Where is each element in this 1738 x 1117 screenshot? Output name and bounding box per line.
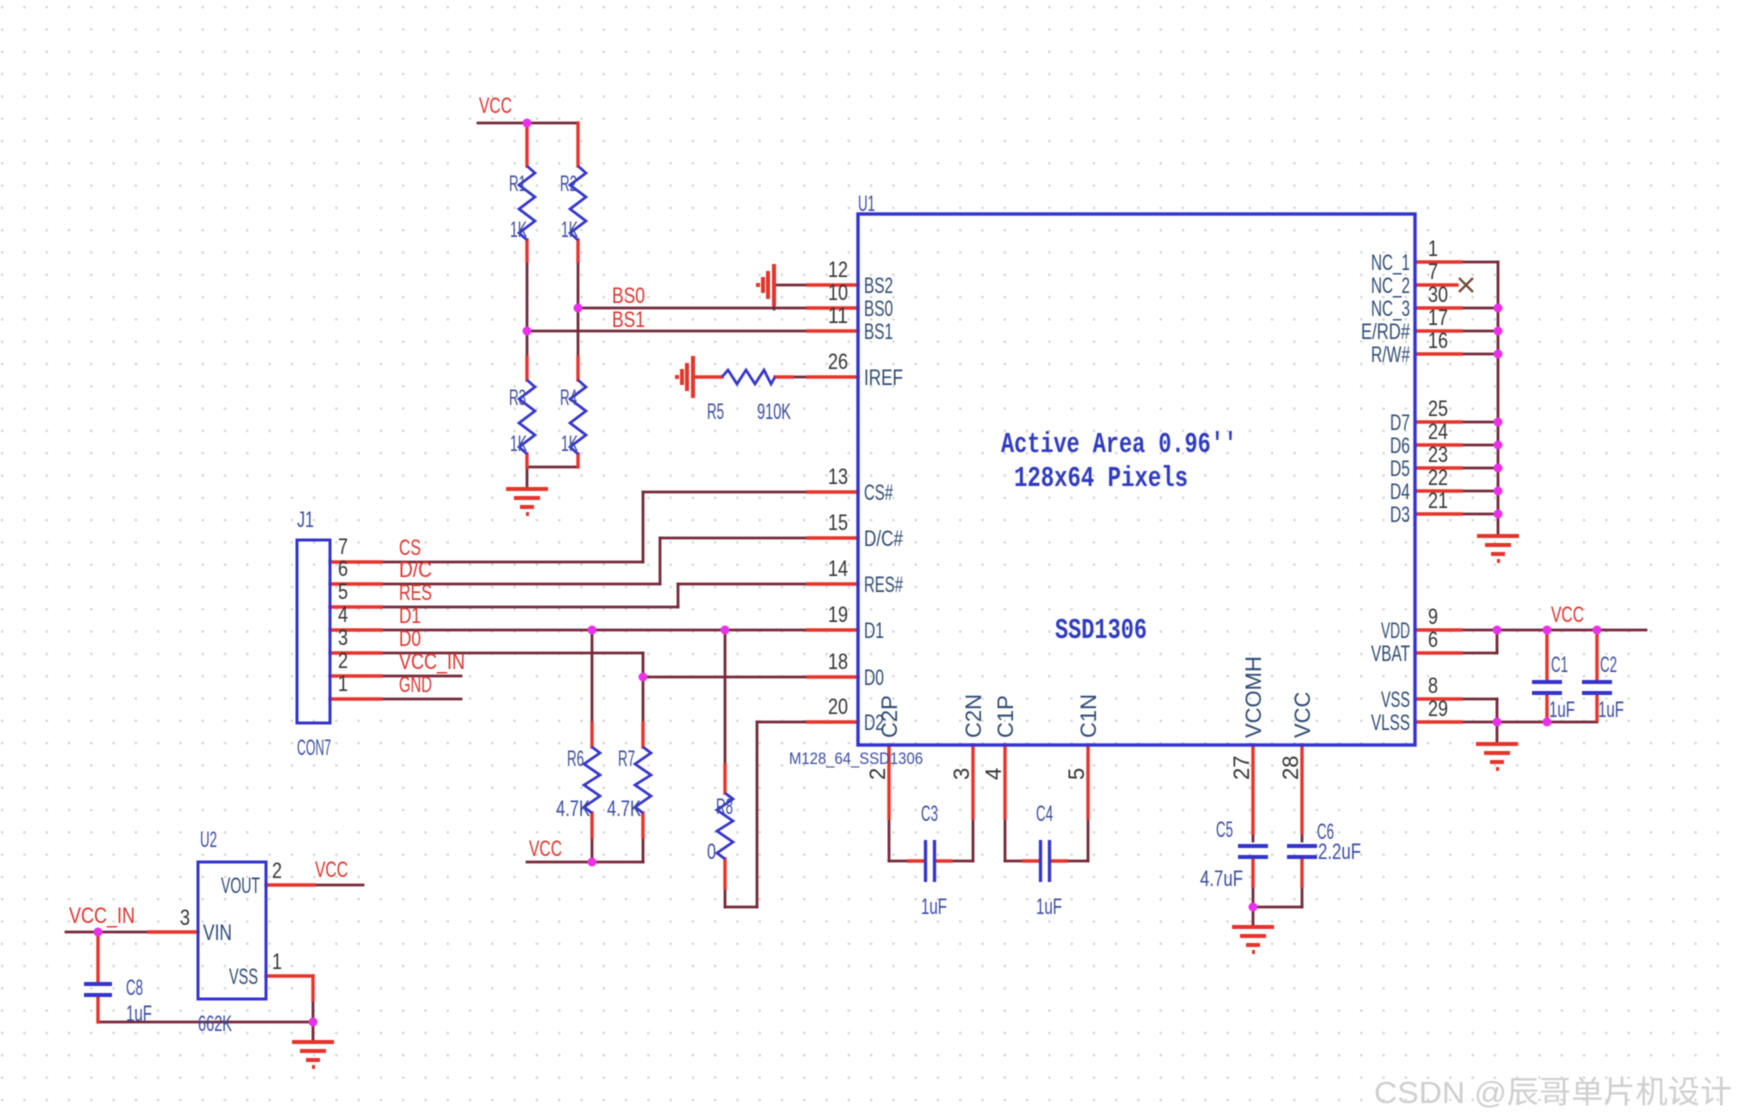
svg-text:1K: 1K (510, 217, 527, 242)
svg-text:C2N: C2N (961, 694, 986, 738)
svg-text:23: 23 (1428, 442, 1448, 467)
svg-text:12: 12 (828, 257, 848, 282)
svg-text:VCC: VCC (315, 857, 348, 882)
svg-text:E/RD#: E/RD# (1361, 319, 1411, 344)
svg-text:D6: D6 (1390, 433, 1410, 458)
svg-text:D1: D1 (864, 618, 884, 643)
svg-text:D/C: D/C (399, 557, 432, 582)
svg-text:4.7uF: 4.7uF (1200, 866, 1243, 891)
svg-text:R/W#: R/W# (1371, 342, 1411, 367)
svg-text:VCC: VCC (479, 93, 512, 118)
svg-text:18: 18 (828, 649, 848, 674)
svg-text:19: 19 (828, 602, 848, 627)
svg-text:14: 14 (828, 556, 848, 581)
svg-text:NC_3: NC_3 (1371, 296, 1410, 321)
svg-text:26: 26 (828, 349, 848, 374)
svg-text:4: 4 (338, 602, 348, 627)
svg-text:7: 7 (1428, 259, 1438, 284)
svg-text:9: 9 (1428, 604, 1438, 629)
svg-text:8: 8 (1428, 673, 1438, 698)
svg-text:13: 13 (828, 464, 848, 489)
svg-text:28: 28 (1278, 756, 1303, 780)
svg-text:C4: C4 (1036, 801, 1053, 826)
svg-text:3: 3 (180, 905, 190, 930)
svg-text:VSS: VSS (1381, 687, 1410, 712)
svg-text:VLSS: VLSS (1371, 710, 1410, 735)
svg-text:1uF: 1uF (1598, 697, 1624, 722)
svg-text:D0: D0 (864, 665, 884, 690)
svg-text:C1P: C1P (993, 695, 1018, 738)
svg-text:R5: R5 (707, 399, 724, 424)
svg-text:GND: GND (399, 672, 432, 697)
svg-text:1uF: 1uF (1036, 894, 1062, 919)
svg-text:5: 5 (338, 579, 348, 604)
svg-text:VIN: VIN (203, 920, 232, 945)
svg-text:VOUT: VOUT (221, 873, 260, 898)
svg-text:C1: C1 (1551, 652, 1568, 677)
svg-text:C8: C8 (126, 975, 143, 1000)
svg-text:RES#: RES# (864, 572, 904, 597)
svg-text:1uF: 1uF (126, 1001, 152, 1026)
svg-text:1: 1 (1428, 236, 1438, 261)
svg-text:R3: R3 (509, 385, 526, 410)
svg-text:6: 6 (338, 556, 348, 581)
svg-text:D5: D5 (1390, 456, 1410, 481)
svg-text:D3: D3 (1390, 502, 1410, 527)
svg-text:C1N: C1N (1076, 694, 1101, 738)
svg-text:RES: RES (399, 580, 432, 605)
svg-text:5: 5 (1064, 768, 1089, 780)
svg-text:BS0: BS0 (864, 296, 893, 321)
svg-text:29: 29 (1428, 696, 1448, 721)
svg-text:R7: R7 (618, 746, 635, 771)
svg-text:R8: R8 (716, 794, 733, 819)
svg-text:4: 4 (981, 768, 1006, 780)
svg-text:NC_1: NC_1 (1371, 250, 1410, 275)
svg-text:10: 10 (828, 280, 848, 305)
svg-text:BS1: BS1 (864, 319, 893, 344)
svg-text:3: 3 (949, 768, 974, 780)
svg-text:27: 27 (1229, 756, 1254, 780)
svg-text:Active Area 0.96'': Active Area 0.96'' (1001, 428, 1237, 461)
svg-text:VSS: VSS (229, 964, 258, 989)
svg-text:1K: 1K (561, 217, 578, 242)
svg-text:4.7K: 4.7K (556, 796, 590, 821)
svg-text:VCC: VCC (1551, 602, 1584, 627)
svg-text:IREF: IREF (864, 365, 903, 390)
svg-text:D4: D4 (1390, 479, 1410, 504)
svg-text:6: 6 (1428, 627, 1438, 652)
svg-text:25: 25 (1428, 396, 1448, 421)
svg-text:21: 21 (1428, 488, 1448, 513)
svg-text:R6: R6 (567, 746, 584, 771)
svg-text:3: 3 (338, 625, 348, 650)
svg-text:C5: C5 (1216, 817, 1233, 842)
svg-text:R2: R2 (560, 171, 577, 196)
svg-text:D7: D7 (1390, 410, 1410, 435)
svg-text:910K: 910K (757, 399, 791, 424)
svg-text:CS#: CS# (864, 480, 894, 505)
svg-text:128x64 Pixels: 128x64 Pixels (1014, 462, 1188, 495)
svg-text:VDD: VDD (1381, 618, 1410, 643)
svg-text:24: 24 (1428, 419, 1448, 444)
svg-text:2.2uF: 2.2uF (1318, 839, 1361, 864)
svg-text:17: 17 (1428, 305, 1448, 330)
svg-text:22: 22 (1428, 465, 1448, 490)
svg-text:VBAT: VBAT (1371, 641, 1410, 666)
svg-text:R4: R4 (560, 385, 577, 410)
svg-text:1K: 1K (510, 431, 527, 456)
svg-text:C2P: C2P (877, 695, 902, 738)
svg-text:U1: U1 (858, 191, 875, 216)
svg-text:BS1: BS1 (612, 307, 645, 332)
svg-text:16: 16 (1428, 328, 1448, 353)
svg-text:1: 1 (272, 949, 282, 974)
svg-text:BS2: BS2 (864, 273, 893, 298)
svg-text:1uF: 1uF (1549, 697, 1575, 722)
svg-text:2: 2 (272, 858, 282, 883)
svg-text:VCOMH: VCOMH (1241, 656, 1266, 738)
svg-text:R1: R1 (509, 171, 526, 196)
svg-text:VCC_IN: VCC_IN (69, 903, 135, 928)
svg-text:CSDN @辰哥单片机设计: CSDN @辰哥单片机设计 (1374, 1075, 1732, 1110)
svg-text:VCC: VCC (1290, 691, 1315, 738)
svg-text:M128_64_SSD1306: M128_64_SSD1306 (789, 750, 923, 768)
svg-text:D1: D1 (399, 603, 421, 628)
svg-text:2: 2 (338, 648, 348, 673)
svg-text:1uF: 1uF (921, 894, 947, 919)
svg-text:2: 2 (865, 768, 890, 780)
svg-text:11: 11 (828, 303, 848, 328)
svg-text:30: 30 (1428, 282, 1448, 307)
svg-text:D/C#: D/C# (864, 526, 904, 551)
svg-text:0: 0 (707, 839, 716, 864)
svg-text:NC_2: NC_2 (1371, 273, 1410, 298)
svg-text:1K: 1K (561, 431, 578, 456)
svg-text:VCC_IN: VCC_IN (399, 649, 465, 674)
svg-text:C3: C3 (921, 801, 938, 826)
svg-text:SSD1306: SSD1306 (1055, 614, 1147, 647)
svg-text:J1: J1 (297, 507, 314, 532)
svg-text:U2: U2 (200, 827, 217, 852)
svg-text:VCC: VCC (529, 836, 562, 861)
svg-text:662K: 662K (198, 1011, 232, 1036)
svg-text:BS0: BS0 (612, 283, 645, 308)
svg-text:15: 15 (828, 510, 848, 535)
svg-text:CON7: CON7 (297, 735, 331, 760)
svg-text:1: 1 (338, 671, 348, 696)
svg-text:20: 20 (828, 694, 848, 719)
svg-text:C2: C2 (1600, 652, 1617, 677)
svg-text:D0: D0 (399, 626, 421, 651)
svg-text:4.7K: 4.7K (607, 796, 641, 821)
